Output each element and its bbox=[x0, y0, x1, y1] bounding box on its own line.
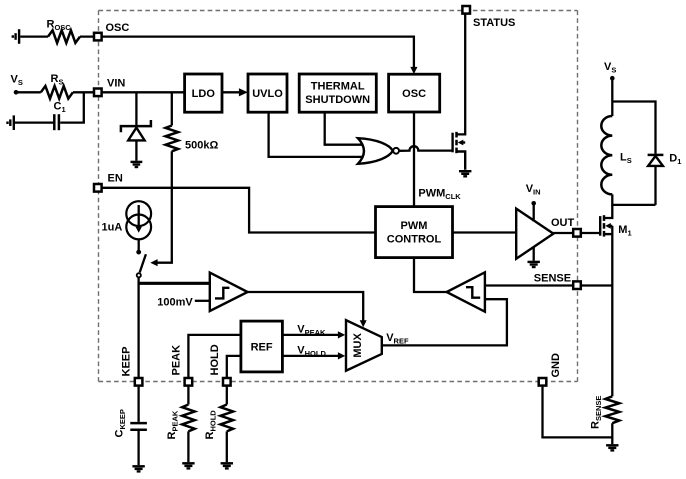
wire NOR output to status gate (with hop) bbox=[399, 146, 453, 151]
wire STATUS drain to STATUS pin bbox=[457, 10, 466, 135]
svg-text:CONTROL: CONTROL bbox=[387, 234, 442, 246]
arrowhead VHOLD bbox=[338, 352, 345, 359]
wire top split bbox=[612, 102, 655, 154]
zener diode clamp bbox=[121, 120, 151, 140]
svg-text:1uA: 1uA bbox=[102, 222, 123, 234]
arrowhead VPEAK bbox=[338, 331, 345, 338]
svg-text:100mV: 100mV bbox=[157, 296, 193, 308]
svg-text:KEEP: KEEP bbox=[121, 347, 133, 377]
wire OSC block to PWM CONTROL (net PWMCLK) bbox=[413, 112, 415, 207]
ground at RHOLD bbox=[221, 463, 233, 468]
wire VS to RS bbox=[16, 91, 41, 93]
inductor LS bbox=[601, 116, 612, 194]
ground at status FET bbox=[459, 171, 471, 176]
op-amp U3 (gate driver) bbox=[516, 209, 553, 259]
svg-text:REF: REF bbox=[251, 342, 273, 354]
mux MUX bbox=[346, 320, 382, 371]
block THERMAL SHUTDOWN bbox=[299, 74, 376, 112]
resistor ROSC bbox=[48, 30, 80, 43]
op-amp A1 (100mV comparator) bbox=[210, 273, 248, 311]
wire current source to switch node bbox=[138, 239, 140, 250]
wire A2 output to PWM CONTROL bbox=[414, 258, 447, 292]
wire VPEAK REF to MUX bbox=[282, 334, 338, 336]
wire Ls bottom to M1 drain bbox=[612, 194, 655, 205]
wire KEEP node to comparator A1 + input bbox=[139, 282, 210, 285]
wire SENSE pin to A2 + input (net SENSE) bbox=[485, 284, 572, 286]
svg-text:OSC: OSC bbox=[106, 22, 130, 34]
terminal dot VS right bbox=[610, 76, 615, 81]
svg-text:MUX: MUX bbox=[352, 333, 364, 358]
wire ROSC to OSC pin bbox=[80, 35, 98, 37]
wire M1 drain bbox=[604, 205, 612, 218]
capacitor C1 bbox=[54, 114, 59, 130]
svg-text:GND: GND bbox=[550, 353, 562, 378]
block UVLO bbox=[248, 74, 287, 112]
pin OUT bbox=[573, 229, 581, 237]
op-amp A2 (sense comparator) bbox=[447, 272, 485, 311]
pin PEAK bbox=[185, 378, 193, 386]
wire HOLD pin to REF bbox=[227, 356, 241, 377]
ground (sideways) at ROSC bbox=[13, 29, 19, 44]
resistor RS bbox=[41, 86, 73, 99]
svg-text:THERMAL: THERMAL bbox=[311, 81, 365, 93]
wire PWM CONTROL to driver bbox=[453, 231, 517, 233]
transistor Q1 (status open-drain FET) bbox=[453, 132, 466, 170]
wire 100mV to A1 - input bbox=[195, 300, 210, 302]
wire driver output to OUT pin bbox=[553, 232, 572, 234]
arrowhead at switch bbox=[150, 259, 157, 266]
pin OSC bbox=[94, 33, 102, 41]
terminal dot VIN bbox=[531, 201, 536, 206]
capacitor CKEEP bbox=[130, 387, 147, 466]
ground at RSENSE bbox=[606, 445, 618, 450]
wire VHOLD REF to MUX bbox=[282, 355, 338, 357]
switch contact circle bbox=[137, 273, 141, 277]
wire LDO to UVLO bbox=[222, 91, 240, 93]
pin SENSE bbox=[573, 281, 581, 289]
svg-text:STATUS: STATUS bbox=[473, 17, 515, 29]
svg-text:SENSE: SENSE bbox=[534, 273, 571, 285]
transistor M1 bbox=[600, 215, 612, 236]
ground at zener bbox=[131, 162, 143, 167]
diode D1 bbox=[648, 155, 664, 166]
resistor 500k bbox=[166, 126, 179, 152]
wire RSENSE bottom to GND pin bbox=[543, 387, 613, 438]
wire ground to ROSC bbox=[20, 35, 48, 37]
wire switch to KEEP pin (net KEEP) bbox=[137, 278, 139, 378]
svg-text:LDO: LDO bbox=[192, 88, 216, 100]
svg-text:VIN: VIN bbox=[107, 78, 125, 90]
svg-text:PWM: PWM bbox=[401, 220, 428, 232]
resistor RSENSE bbox=[605, 396, 619, 423]
pin HOLD bbox=[223, 378, 231, 386]
wire VREF MUX to A2 - input bbox=[382, 299, 507, 345]
svg-text:EN: EN bbox=[108, 173, 123, 185]
terminal dot VS bbox=[14, 90, 19, 95]
wire C1 tap bbox=[60, 92, 84, 122]
pin STATUS bbox=[462, 6, 470, 14]
svg-text:HOLD: HOLD bbox=[209, 344, 221, 375]
wire 500k tap bbox=[171, 92, 173, 125]
wire VIN pin to LDO (net VIN) bbox=[98, 91, 185, 93]
junction dot switch top bbox=[136, 250, 141, 255]
IC boundary dashed box bbox=[99, 11, 578, 382]
switch blade bbox=[140, 254, 146, 272]
svg-text:SHUTDOWN: SHUTDOWN bbox=[305, 94, 370, 106]
arrowhead into OSC block bbox=[410, 67, 417, 74]
svg-text:500kΩ: 500kΩ bbox=[185, 140, 218, 152]
wire RSENSE to ground bbox=[611, 437, 613, 444]
resistor RPEAK bbox=[182, 387, 195, 463]
current source 1uA bbox=[126, 201, 151, 239]
wire 500k down to switch-control arrow bbox=[157, 151, 172, 262]
ground (sideways) at C1 bbox=[8, 115, 14, 130]
pin GND bbox=[539, 378, 547, 386]
wire OUT pin to M1 gate bbox=[582, 232, 600, 234]
wire OSC pin to OSC block (net OSC) bbox=[98, 37, 414, 70]
ground at RPEAK bbox=[182, 463, 194, 468]
wire zener tap bbox=[135, 92, 137, 125]
wire PEAK pin to REF bbox=[188, 335, 241, 377]
wire M1 source to RSENSE bbox=[611, 226, 613, 396]
wire zener to ground bbox=[135, 140, 137, 160]
block LDO bbox=[185, 74, 222, 112]
block PWM CONTROL bbox=[376, 207, 453, 258]
wire A1 output to MUX select bbox=[248, 292, 364, 321]
wire D1 to bottom rail bbox=[654, 166, 656, 205]
block OSC bbox=[389, 74, 440, 112]
wire C1 to ground bbox=[15, 121, 53, 123]
wire EN pin to PWM CONTROL (net EN) bbox=[98, 188, 376, 233]
wire SENSE pin to M1 source bbox=[582, 284, 613, 286]
wire VS to Ls and D1 bbox=[611, 78, 613, 116]
wire RS to VIN pin bbox=[73, 91, 98, 93]
wire THERMAL SHUTDOWN to NOR bbox=[325, 112, 364, 145]
gate NOR bbox=[358, 138, 399, 164]
wire UVLO to NOR bbox=[269, 112, 364, 157]
wire driver to ground bbox=[533, 247, 535, 261]
pin EN bbox=[94, 184, 102, 192]
wire VIN dot to driver bbox=[533, 203, 535, 221]
block REF bbox=[241, 321, 283, 372]
ground at CKEEP bbox=[132, 466, 144, 471]
resistor RHOLD bbox=[221, 387, 234, 463]
svg-text:PEAK: PEAK bbox=[171, 345, 183, 376]
arrowhead into MUX bbox=[360, 320, 367, 327]
svg-text:UVLO: UVLO bbox=[252, 88, 283, 100]
pin VIN bbox=[94, 89, 102, 97]
svg-text:OSC: OSC bbox=[402, 88, 426, 100]
arrowhead into UVLO bbox=[239, 88, 248, 96]
svg-text:OUT: OUT bbox=[551, 217, 575, 229]
ground at driver bbox=[528, 262, 540, 267]
pin KEEP bbox=[135, 378, 143, 386]
